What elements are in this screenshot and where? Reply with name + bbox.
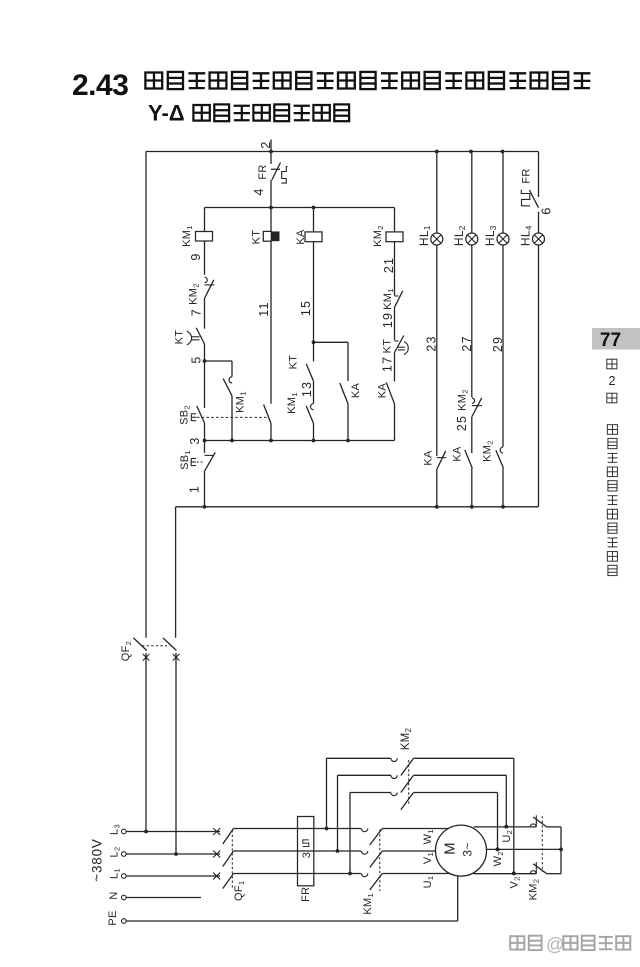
svg-text:KA: KA xyxy=(423,450,435,466)
svg-text:21: 21 xyxy=(382,257,396,273)
svg-text:15: 15 xyxy=(299,300,313,316)
svg-text:KT: KT xyxy=(381,339,393,354)
svg-text:KA: KA xyxy=(452,446,464,462)
svg-text:6: 6 xyxy=(540,207,554,214)
svg-text:3: 3 xyxy=(301,852,313,858)
svg-text:7: 7 xyxy=(190,309,204,316)
svg-text:FR: FR xyxy=(300,887,312,902)
svg-text:2: 2 xyxy=(259,141,273,148)
svg-text:KT: KT xyxy=(251,230,263,245)
svg-text:2.43: 2.43 xyxy=(72,69,128,102)
svg-text:KT: KT xyxy=(174,330,186,345)
svg-text:25: 25 xyxy=(455,415,469,431)
svg-text:KT: KT xyxy=(288,355,300,370)
svg-text:9: 9 xyxy=(189,253,203,260)
svg-text:Y-Δ: Y-Δ xyxy=(148,101,185,126)
svg-text:N: N xyxy=(108,891,120,899)
svg-text:23: 23 xyxy=(425,335,439,351)
svg-text:4: 4 xyxy=(252,188,266,195)
svg-text:27: 27 xyxy=(460,335,474,351)
svg-text:29: 29 xyxy=(491,336,505,352)
svg-text:FR: FR xyxy=(521,168,533,183)
svg-text:KA: KA xyxy=(377,383,389,399)
svg-text:19: 19 xyxy=(381,312,395,328)
svg-text:KA: KA xyxy=(295,229,307,245)
svg-text:11: 11 xyxy=(257,301,271,316)
svg-text:3~: 3~ xyxy=(461,842,475,856)
svg-text:17: 17 xyxy=(381,356,395,372)
svg-text:KA: KA xyxy=(350,383,362,399)
svg-text:~380V: ~380V xyxy=(90,838,105,881)
svg-text:77: 77 xyxy=(600,330,621,351)
svg-text:PE: PE xyxy=(107,910,119,925)
svg-text:2: 2 xyxy=(609,374,616,388)
svg-text:FR: FR xyxy=(257,164,269,179)
svg-text:M: M xyxy=(441,842,458,855)
svg-text:@: @ xyxy=(546,935,564,955)
svg-text:5: 5 xyxy=(190,356,204,363)
svg-text:13: 13 xyxy=(300,381,314,397)
svg-text:1: 1 xyxy=(188,486,202,493)
svg-text:3: 3 xyxy=(188,437,202,444)
